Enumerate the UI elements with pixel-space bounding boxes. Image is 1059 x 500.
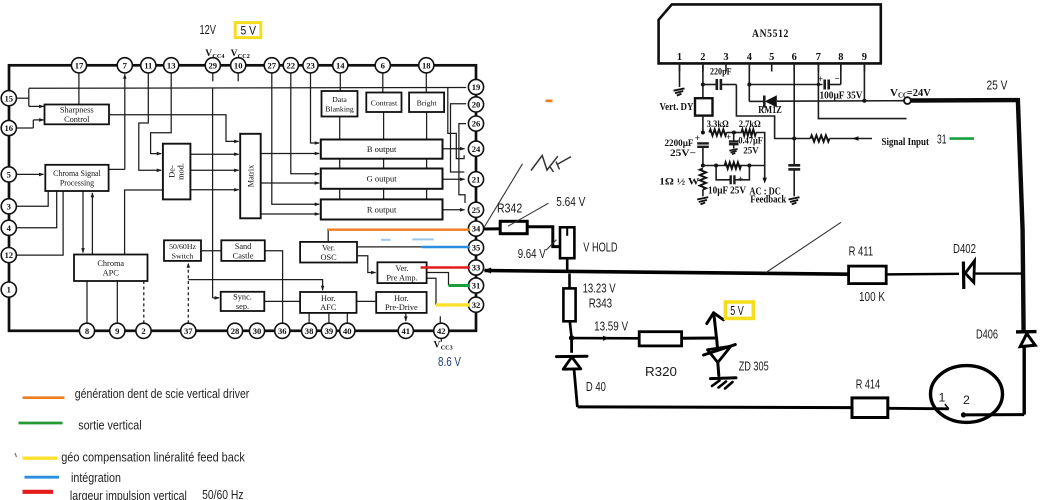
- svg-text:intégration: intégration: [71, 471, 121, 485]
- svg-text:AFC: AFC: [320, 303, 337, 312]
- pin 1 (left): [1, 282, 16, 297]
- svg-text:2: 2: [700, 52, 705, 63]
- svg-text:7: 7: [816, 52, 821, 63]
- svg-text:220pF: 220pF: [710, 67, 732, 78]
- wire Hor AFC to pin39: [328, 313, 330, 323]
- wire Ver OSC top stub (to orange net pin34): [327, 230, 329, 242]
- svg-text:V: V: [434, 341, 441, 351]
- green annotation line at 31: [950, 137, 975, 140]
- junction at pin7 crossing: [817, 83, 820, 86]
- capacitor 2200uF 25V (inline left branch): [697, 142, 709, 144]
- block Bright: [409, 93, 444, 113]
- wire Matrix to R output: [261, 213, 319, 215]
- svg-text:OSC: OSC: [320, 253, 337, 262]
- wire pin27 to R output: [272, 73, 319, 204]
- junction 10uF left: [714, 164, 718, 168]
- wire pin34 to R342: [484, 227, 501, 230]
- ground at ZD 305 (hand drawn): [711, 376, 737, 380]
- pin 21 (right): [468, 172, 483, 187]
- wire pin11 to De-mod: [139, 73, 161, 170]
- block Hor Pre-Drive: [376, 292, 426, 313]
- legend tick mark: [15, 453, 17, 457]
- svg-text:50/60 Hz: 50/60 Hz: [202, 488, 244, 500]
- svg-text:5 V: 5 V: [241, 24, 257, 38]
- wire pin15 to Sharpness Control and bus: [16, 97, 28, 99]
- wire Chroma APC to pin9: [116, 281, 118, 323]
- capacitor 10uF 25V loop: [716, 166, 730, 180]
- svg-text:30: 30: [253, 326, 262, 336]
- wire bus drop to Sync sep: [212, 88, 214, 298]
- wire B output to pin24: [443, 148, 465, 150]
- svg-text:=24V: =24V: [907, 88, 931, 99]
- wire pin22 to G output: [291, 73, 319, 174]
- component Vert. DY box: [695, 98, 713, 115]
- block Sync sep: [221, 292, 265, 311]
- svg-text:Bright: Bright: [417, 98, 438, 107]
- block Ver Pre Amp: [377, 262, 426, 283]
- pin 2 (bottom): [136, 323, 151, 338]
- resistor R343: [563, 288, 575, 321]
- svg-text:−: −: [722, 176, 727, 186]
- resistor feedback (unlabeled): [725, 162, 741, 168]
- wire R output to pin25: [443, 209, 465, 211]
- svg-text:17: 17: [75, 60, 84, 70]
- svg-text:CC3: CC3: [441, 345, 453, 352]
- pin 32 (right): [468, 297, 483, 312]
- tick below pin10 (Vcc2): [237, 73, 239, 81]
- wire D40 down to bottom rail: [574, 369, 578, 407]
- wire Hor AFC to Hor Pre-Drive: [357, 300, 377, 302]
- svg-text:R342: R342: [497, 202, 522, 216]
- svg-text:AN5512: AN5512: [752, 26, 789, 40]
- main IC outline (color/jungle IC block diagram): [9, 65, 476, 331]
- svg-text:R343: R343: [589, 296, 612, 310]
- pin 18 (top): [419, 58, 434, 73]
- block Contrast: [366, 93, 401, 113]
- pin 26 (right): [468, 116, 483, 131]
- legend red line: [23, 490, 54, 494]
- pin 31 (right): [468, 278, 483, 293]
- block Chroma APC: [74, 255, 148, 282]
- legend blue line: [25, 476, 60, 479]
- svg-text:13: 13: [167, 60, 176, 70]
- svg-text:9: 9: [862, 52, 867, 63]
- resistor 3.3kOhm: [709, 129, 726, 135]
- junction signal/pin6: [792, 137, 796, 141]
- wire Bright feed down to R output: [426, 112, 428, 199]
- svg-text:4: 4: [747, 52, 752, 63]
- svg-text:Blanking: Blanking: [325, 104, 354, 113]
- svg-text:25: 25: [472, 205, 481, 215]
- wire pin2 node to Vert DY: [702, 85, 704, 99]
- svg-text:sortie vertical: sortie vertical: [78, 419, 141, 433]
- svg-text:+: +: [726, 132, 731, 142]
- wire Ver OSC to pin35 (continues blue): [357, 246, 422, 248]
- svg-text:8: 8: [838, 52, 843, 63]
- blue line integration (pin35): [422, 246, 470, 249]
- block B output: [321, 140, 443, 159]
- wire Chroma-Signal-Processing to pin7: [109, 168, 125, 170]
- svg-text:D406: D406: [976, 327, 998, 341]
- svg-text:9: 9: [115, 326, 119, 336]
- svg-text:5.64 V: 5.64 V: [556, 195, 585, 209]
- svg-text:33: 33: [472, 263, 481, 273]
- svg-text:V HOLD: V HOLD: [583, 241, 617, 255]
- resistor R342: [500, 221, 527, 233]
- pin 15 (left): [1, 91, 16, 106]
- svg-text:6: 6: [381, 60, 386, 70]
- svg-text:génération dent de scie vertic: génération dent de scie vertical driver: [75, 387, 250, 401]
- pin 35 (right): [468, 240, 483, 255]
- svg-text:sep.: sep.: [236, 302, 249, 311]
- thin diagonal pointer from pin34: [484, 164, 523, 228]
- pin 40 (bottom): [340, 323, 355, 338]
- wire Sharpness Control output to Matrix: [109, 115, 238, 142]
- svg-text:4: 4: [7, 223, 12, 233]
- wire RM1Z to Vcc node: [777, 100, 904, 103]
- capacitor 100uF 35V: [823, 80, 826, 90]
- svg-text:3: 3: [7, 201, 11, 211]
- legend yellow line: [23, 457, 58, 460]
- pin 6 (top): [375, 58, 390, 73]
- svg-text:5 V: 5 V: [730, 304, 744, 318]
- junction 0.47uF node: [732, 131, 736, 135]
- svg-text:20: 20: [472, 100, 481, 110]
- svg-text:ZD 305: ZD 305: [739, 359, 769, 373]
- green line sortie vertical (pin31): [449, 284, 471, 287]
- pin 19 (right): [468, 79, 483, 94]
- svg-text:25 V: 25 V: [987, 78, 1008, 93]
- svg-text:13.23 V: 13.23 V: [583, 281, 616, 295]
- svg-text:31: 31: [472, 281, 481, 291]
- svg-text:100 K: 100 K: [859, 290, 885, 304]
- wire 220pF to signal path (down-right-down): [736, 85, 810, 139]
- block Sharpness Control: [45, 105, 110, 125]
- legend green line: [19, 422, 63, 425]
- svg-text:Data: Data: [332, 95, 347, 104]
- svg-text:Sand: Sand: [235, 242, 252, 251]
- node 5V (yellow box, lower): [725, 302, 753, 318]
- light blue dashes: [381, 239, 391, 241]
- diode RM1Z: [749, 100, 764, 102]
- pin 14 (top): [333, 58, 348, 73]
- svg-text:Matrix: Matrix: [247, 164, 256, 187]
- pointer line 5.64V: [508, 203, 549, 226]
- diode D406 on 25V rail: [1016, 330, 1037, 334]
- pin 36 (bottom): [275, 323, 290, 338]
- svg-text:De-: De-: [167, 165, 176, 178]
- svg-text:6: 6: [792, 52, 797, 63]
- block Chroma Signal Processing: [45, 165, 108, 191]
- svg-text:1: 1: [7, 285, 11, 295]
- svg-text:Hor.: Hor.: [394, 294, 409, 303]
- svg-text:Castle: Castle: [233, 251, 254, 260]
- junction 3.3k node: [701, 131, 705, 135]
- wire pin6 to Contrast: [382, 73, 384, 93]
- scribble marks (lightning): [531, 156, 558, 171]
- IC AN5512 outline: [659, 4, 881, 63]
- svg-text:14: 14: [336, 60, 345, 70]
- pin 13 (top): [164, 58, 179, 73]
- svg-text:50/60Hz: 50/60Hz: [169, 242, 196, 251]
- svg-text:2: 2: [963, 393, 970, 407]
- red line largeur impulsion (pin33): [421, 266, 470, 269]
- svg-text:V: V: [890, 87, 898, 99]
- pin 30 (bottom): [249, 323, 264, 338]
- svg-text:25V: 25V: [743, 145, 759, 156]
- junction pin4/capline: [747, 83, 751, 87]
- wire 50/60Hz Switch to Sand Castle: [201, 250, 221, 252]
- svg-text:22: 22: [287, 60, 296, 70]
- svg-text:34: 34: [472, 224, 481, 234]
- svg-text:27: 27: [268, 60, 277, 70]
- pin 24 (right): [468, 141, 483, 156]
- svg-text:CC4: CC4: [212, 53, 224, 60]
- wire V HOLD down to main rail: [566, 258, 569, 272]
- wire thick 25V rail (down right side): [1018, 98, 1024, 331]
- svg-text:D402: D402: [953, 242, 976, 256]
- svg-text:1: 1: [677, 52, 682, 63]
- svg-text:R320: R320: [645, 364, 677, 379]
- svg-text:35: 35: [472, 243, 481, 253]
- wire Sand Castle to pin36: [265, 251, 283, 324]
- svg-text:12: 12: [5, 250, 14, 260]
- pin 11 (top): [141, 58, 156, 73]
- wire pin5 to Chroma Signal Processing: [16, 173, 43, 175]
- junction pin2 node: [701, 83, 705, 87]
- wire long bus pin15/pin19 across IC top: [29, 87, 466, 90]
- pin 5 (left): [1, 167, 16, 182]
- wire pin4 to Chroma Signal Processing: [16, 191, 56, 228]
- wire De-mod to Chroma APC: [125, 190, 163, 254]
- svg-text:Sharpness: Sharpness: [60, 106, 94, 115]
- svg-text:Control: Control: [64, 115, 90, 124]
- pin 7 (top): [117, 58, 132, 73]
- wire pin17 to Sharpness Control top: [78, 73, 80, 104]
- wire main thick rail pin33 to R411: [485, 271, 849, 275]
- pin 9 (bottom): [110, 323, 125, 338]
- potentiometer V HOLD: [560, 227, 574, 258]
- resistor signal input zigzag: [811, 135, 830, 141]
- pin 8 (bottom): [79, 323, 94, 338]
- block G output: [321, 169, 443, 189]
- junction connector pin2 dot: [961, 412, 966, 417]
- svg-text:V: V: [231, 49, 238, 59]
- svg-text:25V−: 25V−: [670, 148, 696, 159]
- svg-text:13.59 V: 13.59 V: [594, 319, 628, 333]
- wire pin20 to pin21: [451, 104, 467, 172]
- pin 27 (top): [264, 58, 279, 73]
- wire Ver Pre Amp to pin31 (continues green): [427, 273, 449, 286]
- wire Matrix to G output: [261, 182, 319, 184]
- arrow to 5V (hand drawn): [714, 313, 717, 338]
- orange line generation dent de scie (pin34): [327, 228, 470, 230]
- svg-text:R 411: R 411: [849, 244, 874, 258]
- svg-text:36: 36: [278, 326, 287, 336]
- pin 22 (top): [283, 58, 298, 73]
- svg-text:B output: B output: [367, 144, 397, 154]
- wire Contrast feed down to R output: [383, 112, 385, 199]
- junction feedback-left node: [701, 164, 705, 168]
- wire left branch mid: [702, 147, 704, 166]
- wire AN5512 pin1 down: [679, 63, 681, 87]
- wire R414 to yoke connector pin1: [888, 407, 949, 410]
- svg-text:16: 16: [5, 123, 14, 133]
- svg-text:41: 41: [402, 326, 411, 336]
- resistor 1 Ohm half W (vertical): [700, 169, 706, 190]
- pin 12 (left): [1, 248, 16, 263]
- connector yoke circle: [931, 366, 1003, 423]
- thin diagonal pointer on main rail: [766, 222, 841, 272]
- pin 38 (bottom): [302, 323, 317, 338]
- svg-text:Vert. DY: Vert. DY: [660, 102, 695, 113]
- wire De-mod to Matrix (3 lines): [191, 153, 239, 155]
- svg-text:+: +: [695, 134, 700, 144]
- svg-text:1Ω ½ W: 1Ω ½ W: [659, 177, 699, 188]
- svg-text:géo compensation linéralité: géo compensation linéralité feed back: [61, 451, 245, 465]
- ground at 1 Ohm: [697, 197, 708, 199]
- pin 23 (top): [303, 58, 318, 73]
- svg-text:28: 28: [231, 326, 240, 336]
- wire Chroma APC to Chroma Signal Processing: [91, 193, 93, 255]
- svg-text:5: 5: [769, 52, 774, 63]
- wire Chroma Signal Processing to Chroma APC: [82, 191, 84, 252]
- wire 2.7k right leg down: [756, 133, 765, 166]
- block 50/60Hz Switch: [164, 240, 201, 261]
- wire Data-Blanking feed down to R output: [339, 116, 341, 199]
- svg-text:D 40: D 40: [586, 380, 606, 394]
- svg-text:largeur impulsion vertical: largeur impulsion vertical: [70, 489, 187, 500]
- wire AN5512 pin7 down-right: [818, 63, 906, 118]
- svg-text:−: −: [835, 74, 840, 84]
- pin 10 (top): [231, 58, 246, 73]
- pin 39 (bottom): [321, 323, 336, 338]
- capacitor 0.47uF 25V to ground: [733, 133, 735, 141]
- svg-text:8.6 V: 8.6 V: [438, 354, 461, 369]
- pin 28 (bottom): [227, 323, 242, 338]
- pin 34 (right): [468, 221, 483, 236]
- svg-text:1: 1: [939, 391, 946, 405]
- svg-text:Signal Input: Signal Input: [882, 136, 930, 148]
- svg-text:19: 19: [472, 82, 481, 92]
- block Data Blanking: [322, 91, 358, 117]
- svg-text:R 414: R 414: [856, 377, 880, 391]
- wire thick 25V rail (top): [911, 98, 1018, 103]
- legend orange line: [23, 396, 65, 399]
- svg-text:Pre-Drive: Pre-Drive: [385, 303, 418, 312]
- svg-text:2: 2: [141, 326, 145, 336]
- wire pin3 to Chroma Signal Processing: [16, 191, 48, 206]
- wire Vert DY to 3.3k node: [702, 116, 704, 133]
- resistor 2.7kOhm: [727, 132, 742, 134]
- wire Hor AFC to pin38: [308, 313, 310, 323]
- svg-text:Chroma Signal: Chroma Signal: [53, 169, 101, 178]
- wire R343 bottom to junction: [570, 321, 572, 338]
- wire junction down to D40: [570, 338, 573, 353]
- block Matrix (vertical text): [240, 134, 261, 219]
- svg-text:2.7kΩ: 2.7kΩ: [739, 119, 761, 130]
- wire Chroma APC to pin2 (dashed): [143, 281, 145, 323]
- wire pin12 to Chroma Signal Processing: [16, 191, 63, 255]
- block R output: [321, 199, 443, 219]
- wire junction to R320 (with arrow): [572, 337, 640, 340]
- pin 17 (top): [71, 58, 86, 73]
- svg-text:7: 7: [123, 60, 128, 70]
- svg-text:10: 10: [234, 60, 243, 70]
- tick below pin29 (Vcc4): [212, 73, 214, 81]
- wire pin16 to Sharpness Control: [16, 127, 33, 129]
- svg-text:Sync.: Sync.: [233, 293, 252, 302]
- orange annotation artifact dash: [546, 100, 553, 103]
- wire signal input w/ arrow: [830, 138, 873, 140]
- wire pin23 to B output: [311, 73, 320, 143]
- svg-text:Pre Amp.: Pre Amp.: [386, 273, 417, 282]
- svg-text:Hor.: Hor.: [321, 294, 336, 303]
- resistor R411 100K: [849, 266, 887, 284]
- wire Ver OSC to Ver Pre Amp: [357, 256, 376, 273]
- svg-text:+: +: [738, 175, 743, 185]
- svg-text:G output: G output: [367, 174, 398, 184]
- wire D402 to 25V rail: [974, 272, 1021, 274]
- junction 10uF right: [747, 164, 751, 168]
- svg-text:38: 38: [305, 326, 314, 336]
- pin 20 (right): [468, 97, 483, 112]
- svg-text:Switch: Switch: [172, 251, 194, 260]
- svg-text:Ver.: Ver.: [322, 244, 335, 253]
- wire AN5512 pin6 down: [793, 63, 795, 164]
- block De-mod (vertical text): [163, 144, 191, 200]
- svg-text:29: 29: [209, 60, 218, 70]
- wire AN5512 pin2 down to node: [702, 63, 704, 84]
- svg-text:42: 42: [437, 326, 446, 336]
- svg-text:3: 3: [723, 52, 728, 63]
- pin 42 (bottom): [434, 323, 449, 338]
- wire Hor Pre-Drive to pin41: [405, 313, 407, 321]
- pin 16 (left): [1, 120, 16, 135]
- resistor R414: [852, 398, 888, 418]
- wire Ver Pre Amp to pin32 (continues yellow): [427, 278, 436, 305]
- wire pin14 to Data Blanking: [339, 73, 341, 91]
- wire pin37 to 50/60Hz Switch (dashed): [187, 262, 189, 323]
- svg-text:40: 40: [343, 326, 352, 336]
- node Vcc=24V open terminal: [904, 97, 911, 104]
- svg-text:18: 18: [422, 60, 431, 70]
- node 5V (yellow box, top): [235, 23, 261, 38]
- wire AN5512 pin9 down: [863, 63, 865, 100]
- block Sand Castle: [221, 240, 264, 261]
- wire R343 top stub: [568, 274, 571, 289]
- junction pin9 node: [862, 99, 866, 103]
- wire 25V rail below D406: [1022, 346, 1025, 415]
- resistor R320: [639, 332, 681, 346]
- svg-text:100µF 35V: 100µF 35V: [820, 90, 864, 101]
- svg-text:21: 21: [472, 174, 481, 184]
- svg-text:Chroma: Chroma: [97, 259, 124, 268]
- pin 29 (top): [205, 58, 220, 73]
- svg-text:Feedback: Feedback: [750, 195, 786, 206]
- wire stub above pin42: [439, 316, 441, 323]
- wire R411 to D402: [886, 273, 959, 276]
- wire pin18 to Bright: [425, 73, 427, 93]
- svg-text:37: 37: [184, 326, 193, 336]
- wire R342 to V HOLD: [527, 227, 560, 247]
- pin 25 (right): [468, 202, 483, 217]
- wire G output to pin21: [443, 178, 465, 180]
- wire bottom right to yoke connector: [964, 413, 1025, 416]
- pin 41 (bottom): [398, 323, 413, 338]
- block Hor AFC: [300, 292, 356, 313]
- svg-text:CC2: CC2: [238, 53, 250, 60]
